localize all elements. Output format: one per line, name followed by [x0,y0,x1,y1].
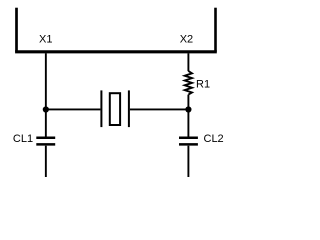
svg-text:CL2: CL2 [204,133,224,145]
IC body outline U1 (bottom edge of chip) [15,8,217,52]
wire node B down to capacitor CL2 [187,109,189,136]
node B junction dot [185,106,191,112]
wire resistor R1 to node B [187,95,189,110]
svg-text:R1: R1 [196,78,210,90]
capacitor CL1 bottom plate [36,143,55,146]
node A junction dot [43,106,49,112]
crystal Y1 body [110,93,120,125]
wire node A down to capacitor CL1 [45,109,47,136]
capacitor CL2 bottom plate [179,143,198,146]
svg-text:X1: X1 [39,34,52,46]
capacitor CL1 top plate [36,136,55,139]
crystal Y1 right plate [128,90,130,127]
capacitor CL2 top plate [179,136,198,139]
wire pin X1 down to node A [45,53,47,109]
crystal Y1 left plate [100,90,102,127]
svg-text:CL1: CL1 [13,133,33,145]
wire node A to crystal left plate [46,108,101,110]
resistor R1 zigzag [185,71,192,95]
wire capacitor CL2 to bottom [187,146,189,177]
wire pin X2 down to resistor R1 [187,53,189,71]
wire capacitor CL1 to bottom [45,146,47,177]
wire crystal right plate to node B [130,108,189,110]
svg-text:X2: X2 [180,34,193,46]
